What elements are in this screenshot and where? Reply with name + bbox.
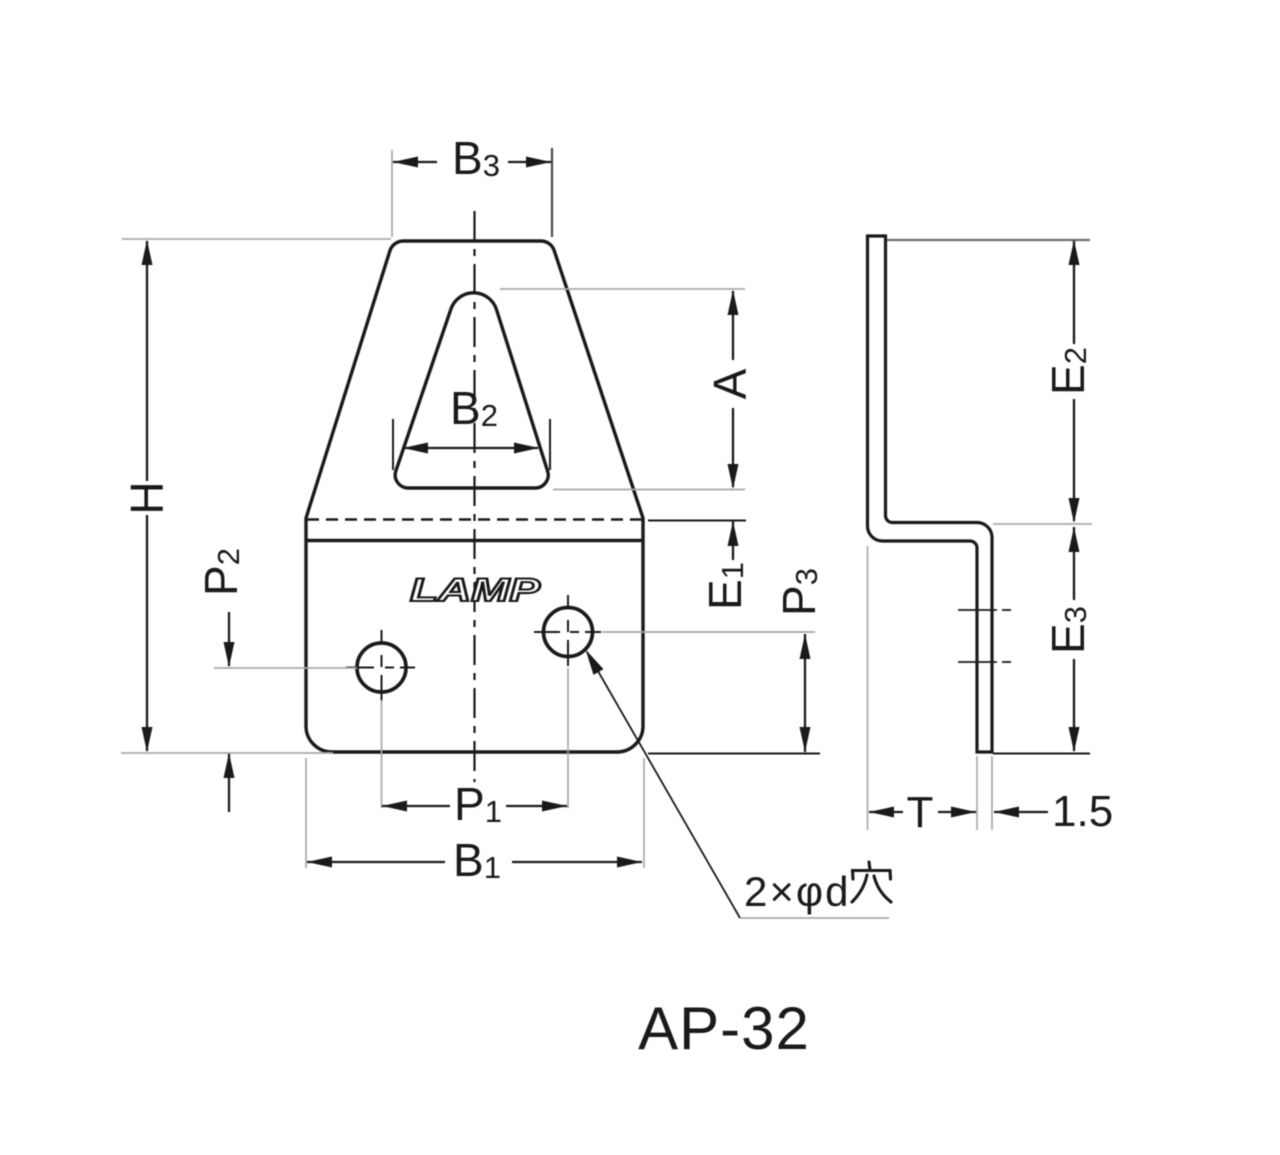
hole (left) xyxy=(357,643,406,692)
bend line extension (E1) xyxy=(648,520,746,522)
hole (right) xyxy=(544,608,593,657)
dimension E2 xyxy=(1073,241,1075,344)
dimension B2 extension lines xyxy=(392,419,394,470)
dimension P1 xyxy=(382,805,450,807)
dimension 1.5 xyxy=(994,811,1048,813)
bottom extension line (side view) xyxy=(993,753,1090,755)
svg-text:2×φd: 2×φd xyxy=(744,868,850,915)
bend edge line (solid) xyxy=(306,539,643,542)
side-view hole position marks xyxy=(958,609,997,611)
dimension H xyxy=(146,241,148,481)
bend line (dashed) xyxy=(307,518,642,521)
dimension E3 xyxy=(1073,527,1075,600)
svg-text:1.5: 1.5 xyxy=(1052,787,1113,836)
dimension E2 extension lines xyxy=(887,239,1090,241)
svg-text:A: A xyxy=(704,368,756,399)
dimension T extension line xyxy=(867,546,869,830)
bottom extension line (right) xyxy=(648,753,820,755)
svg-text:AP-32: AP-32 xyxy=(638,995,810,1062)
dimension P2 extension line xyxy=(214,667,357,669)
vertical centerline xyxy=(473,211,475,782)
dimension P3 xyxy=(804,634,806,752)
dimension B1 xyxy=(307,861,445,863)
dimension A xyxy=(732,291,734,360)
triangular hanging hole xyxy=(395,293,548,488)
leader line to hole xyxy=(587,652,740,918)
dimension A extension lines xyxy=(500,288,745,290)
dimension B3 extension lines xyxy=(391,150,393,237)
dimension E1 xyxy=(732,521,734,560)
dimension T xyxy=(869,811,903,813)
side-view profile xyxy=(868,236,993,752)
hole (left) crosshair xyxy=(346,667,415,669)
dimension B2 xyxy=(404,447,538,449)
dimension P1 extension lines xyxy=(381,700,383,808)
dimension B3 xyxy=(393,161,437,163)
dimension P3 extension line xyxy=(602,631,815,633)
dimension P2 xyxy=(228,612,230,666)
bracket front-view outline xyxy=(306,241,643,752)
svg-text:LAMP: LAMP xyxy=(410,572,541,608)
kanji "ana" (hole) xyxy=(852,862,891,902)
dimension B1 extension lines xyxy=(305,758,307,868)
hole (right) crosshair xyxy=(534,631,601,633)
svg-text:H: H xyxy=(121,481,173,514)
svg-text:T: T xyxy=(907,788,934,837)
dimension H extension lines xyxy=(122,238,391,240)
